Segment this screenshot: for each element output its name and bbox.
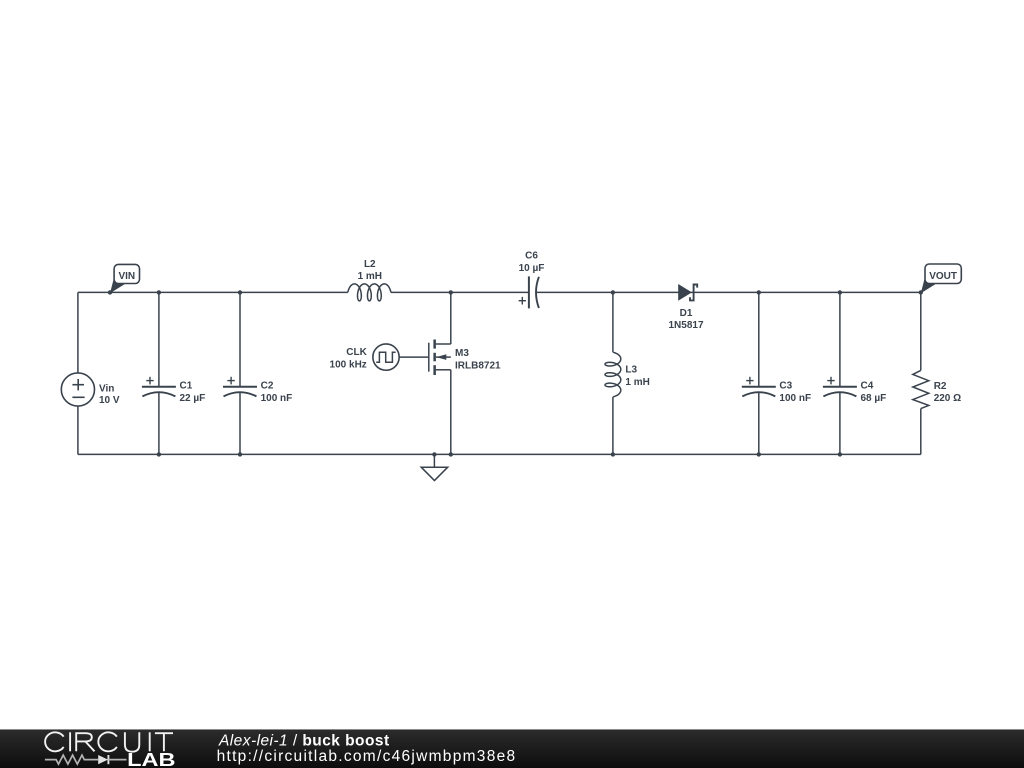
svg-text:100 nF: 100 nF [261,393,293,404]
junction C4 bottom [838,452,842,456]
svg-text:10 µF: 10 µF [519,263,545,274]
footer url [217,748,517,765]
wire top rail from C6 to VOUT corner [536,291,921,293]
junction source at bottom rail [449,452,453,456]
capacitor C1 22 µF [142,292,205,454]
capacitor C6 10 µF [519,251,545,309]
svg-text:68 µF: 68 µF [861,393,887,404]
svg-text:C2: C2 [261,380,274,391]
svg-text:Vin: Vin [99,384,114,395]
junction L3 bottom [611,452,615,456]
junction C3 top [757,290,761,294]
svg-text:R2: R2 [934,381,947,392]
svg-text:220 Ω: 220 Ω [934,393,961,404]
svg-text:C3: C3 [779,380,792,391]
junction C4 top [838,290,842,294]
resistor R2 220 Ω [913,292,961,454]
diode D1 1N5817 [668,284,703,331]
wire CLK to gate [399,356,429,358]
svg-text:1 mH: 1 mH [358,271,382,282]
svg-text:L2: L2 [364,259,376,270]
inductor L2 1 mH [348,259,391,301]
footer title Alex-lei-1 / buck boost [218,732,390,749]
svg-text:22 µF: 22 µF [180,393,206,404]
svg-text:http://circuitlab.com/c46jwmbp: http://circuitlab.com/c46jwmbpm38e8 [217,748,517,765]
svg-text:IRLB8721: IRLB8721 [455,361,501,372]
svg-text:VIN: VIN [118,271,135,282]
node VIN flag [108,264,140,294]
node VOUT flag [919,264,962,295]
wire top rail from source to L2 [78,291,348,293]
capacitor C4 68 µF [823,292,886,454]
junction C2 bottom [238,452,242,456]
CircuitLab logo text CIRCUIT [45,732,173,751]
svg-text:LAB: LAB [127,749,175,768]
junction C1 top [157,290,161,294]
svg-text:C1: C1 [180,380,193,391]
junction L3 top [611,290,615,294]
junction C3 bottom [757,452,761,456]
voltage source CLK 100 kHz [330,344,400,371]
svg-text:100 nF: 100 nF [779,393,811,404]
svg-text:D1: D1 [680,308,693,319]
capacitor C3 100 nF [742,292,811,454]
svg-text:100 kHz: 100 kHz [330,360,367,371]
transistor M3 IRLB8721 [429,292,501,454]
svg-text:C4: C4 [861,380,874,391]
footer bar [0,729,1024,768]
ground [421,452,448,480]
CircuitLab logo text LAB [127,749,175,768]
wire bottom rail [78,453,921,455]
svg-text:M3: M3 [455,348,469,359]
junction C1 bottom [157,452,161,456]
junction drain / L2 / C6 [449,290,453,294]
svg-text:VOUT: VOUT [929,271,957,282]
svg-text:CLK: CLK [346,347,367,358]
svg-text:C6: C6 [525,251,538,262]
junction C2 top [238,290,242,294]
CircuitLab logo resistor-diode glyph [45,755,127,764]
inductor L3 1 mH [605,292,650,454]
svg-text:10 V: 10 V [99,395,120,406]
svg-text:1N5817: 1N5817 [668,320,703,331]
voltage source Vin 10 V [61,292,120,454]
wire top rail from L2 to C6 left plate [391,291,529,293]
svg-text:L3: L3 [625,365,637,376]
svg-text:1 mH: 1 mH [625,377,649,388]
capacitor C2 100 nF [223,292,292,454]
